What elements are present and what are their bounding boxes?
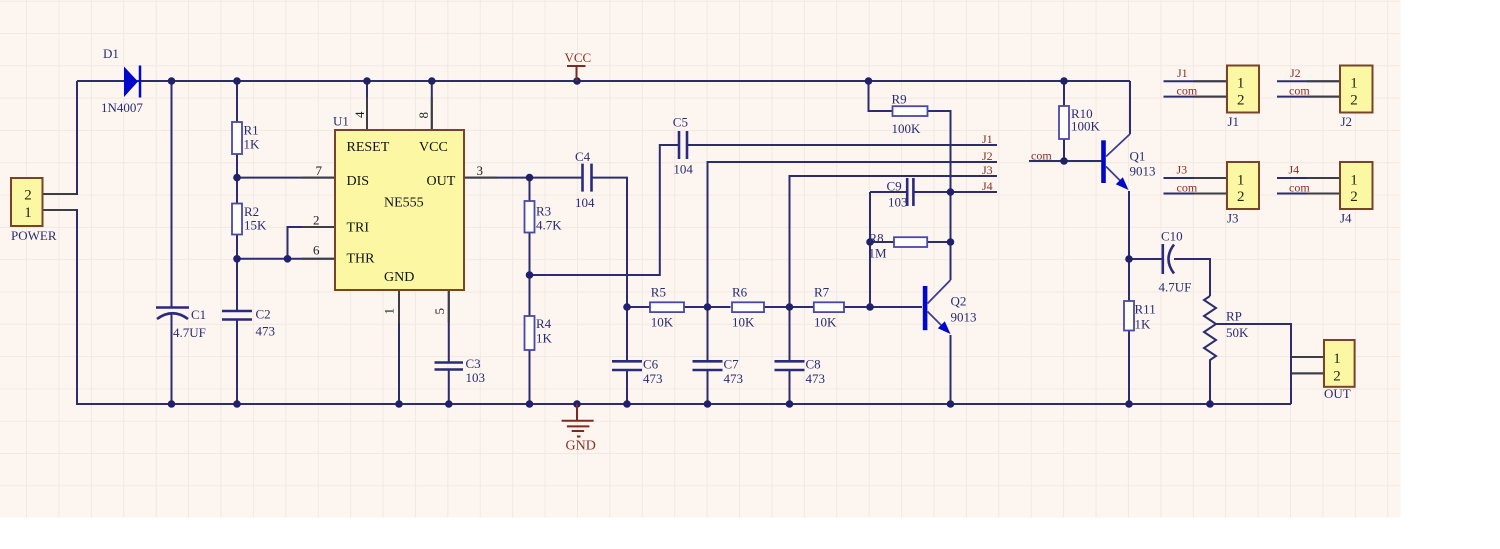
svg-text:C8: C8 [806, 357, 821, 372]
svg-text:2: 2 [1350, 189, 1358, 205]
svg-text:POWER: POWER [11, 228, 57, 243]
svg-text:R9: R9 [892, 92, 907, 107]
svg-text:2: 2 [1350, 92, 1358, 108]
svg-text:5: 5 [432, 308, 447, 315]
svg-text:473: 473 [643, 371, 663, 386]
svg-text:C2: C2 [256, 307, 271, 322]
svg-text:com: com [1289, 84, 1310, 98]
svg-text:4.7UF: 4.7UF [1159, 280, 1192, 295]
svg-text:C1: C1 [191, 307, 206, 322]
svg-text:4.7K: 4.7K [536, 218, 562, 233]
svg-text:2: 2 [313, 213, 320, 228]
svg-text:com: com [1289, 181, 1310, 195]
svg-text:com: com [1177, 181, 1198, 195]
svg-text:2: 2 [1237, 92, 1245, 108]
svg-text:1: 1 [1350, 75, 1358, 91]
svg-text:GND: GND [566, 439, 596, 454]
svg-text:D1: D1 [103, 46, 119, 61]
svg-text:GND: GND [384, 270, 414, 285]
svg-text:J4: J4 [982, 179, 993, 193]
svg-text:473: 473 [806, 371, 826, 386]
svg-text:R8: R8 [869, 231, 884, 246]
svg-text:9013: 9013 [951, 310, 977, 325]
svg-text:7: 7 [316, 163, 323, 178]
svg-text:RESET: RESET [347, 140, 390, 155]
svg-text:10K: 10K [814, 315, 837, 330]
svg-text:104: 104 [575, 195, 595, 210]
svg-text:VCC: VCC [419, 140, 448, 155]
svg-text:J2: J2 [982, 149, 993, 163]
svg-text:100K: 100K [892, 121, 922, 136]
svg-text:C9: C9 [887, 179, 902, 194]
svg-text:4.7UF: 4.7UF [173, 325, 206, 340]
svg-text:C4: C4 [575, 149, 591, 164]
svg-text:1K: 1K [244, 137, 261, 152]
svg-text:100K: 100K [1071, 119, 1101, 134]
svg-text:C10: C10 [1161, 229, 1183, 244]
svg-text:4: 4 [352, 111, 367, 118]
svg-text:1: 1 [1237, 172, 1245, 188]
svg-text:Q2: Q2 [951, 294, 967, 309]
svg-text:J2: J2 [1290, 66, 1301, 80]
svg-text:R5: R5 [651, 285, 666, 300]
svg-text:J3: J3 [1177, 163, 1188, 177]
svg-text:com: com [1031, 149, 1052, 163]
svg-text:J3: J3 [982, 163, 993, 177]
svg-text:C6: C6 [643, 357, 659, 372]
svg-text:DIS: DIS [347, 174, 370, 189]
svg-text:J4: J4 [1289, 163, 1300, 177]
svg-text:NE555: NE555 [384, 196, 424, 211]
svg-text:J1: J1 [1228, 114, 1240, 129]
svg-text:1: 1 [24, 205, 32, 221]
svg-text:U1: U1 [333, 114, 349, 129]
svg-text:1K: 1K [1135, 317, 1152, 332]
svg-text:1: 1 [1333, 351, 1341, 367]
svg-text:RP: RP [1226, 309, 1242, 324]
svg-text:C7: C7 [724, 357, 740, 372]
svg-text:J1: J1 [982, 132, 993, 146]
svg-text:R4: R4 [536, 316, 552, 331]
svg-text:15K: 15K [244, 218, 267, 233]
svg-text:J4: J4 [1340, 211, 1352, 226]
svg-text:8: 8 [416, 112, 431, 119]
svg-text:10K: 10K [651, 315, 674, 330]
svg-text:1N4007: 1N4007 [101, 100, 143, 115]
svg-text:103: 103 [888, 195, 908, 210]
svg-text:2: 2 [1333, 369, 1341, 385]
svg-text:C5: C5 [673, 115, 688, 130]
svg-text:OUT: OUT [427, 174, 456, 189]
svg-text:R6: R6 [732, 285, 748, 300]
svg-text:6: 6 [313, 243, 320, 258]
svg-text:473: 473 [724, 371, 744, 386]
svg-text:C3: C3 [466, 356, 481, 371]
svg-text:R1: R1 [244, 123, 259, 138]
svg-text:J2: J2 [1341, 114, 1353, 129]
svg-text:104: 104 [673, 162, 693, 177]
svg-text:TRI: TRI [347, 221, 370, 236]
svg-text:VCC: VCC [565, 50, 592, 65]
svg-text:50K: 50K [1226, 325, 1249, 340]
svg-text:Q1: Q1 [1130, 149, 1146, 164]
svg-text:1M: 1M [869, 246, 888, 261]
svg-text:2: 2 [24, 188, 32, 204]
svg-text:THR: THR [347, 252, 376, 267]
svg-text:OUT: OUT [1324, 386, 1351, 401]
svg-text:R7: R7 [814, 285, 830, 300]
svg-text:J3: J3 [1227, 211, 1239, 226]
svg-text:R3: R3 [536, 204, 551, 219]
svg-text:1: 1 [1237, 75, 1245, 91]
svg-text:1K: 1K [536, 331, 553, 346]
svg-text:com: com [1177, 84, 1198, 98]
svg-text:J1: J1 [1177, 66, 1188, 80]
svg-text:R11: R11 [1135, 302, 1156, 317]
svg-text:9013: 9013 [1130, 164, 1156, 179]
svg-text:10K: 10K [732, 315, 755, 330]
svg-text:1: 1 [1350, 172, 1358, 188]
svg-text:103: 103 [466, 370, 486, 385]
svg-text:3: 3 [477, 163, 484, 178]
svg-text:473: 473 [256, 324, 276, 339]
svg-text:2: 2 [1237, 189, 1245, 205]
svg-text:1: 1 [382, 308, 397, 315]
